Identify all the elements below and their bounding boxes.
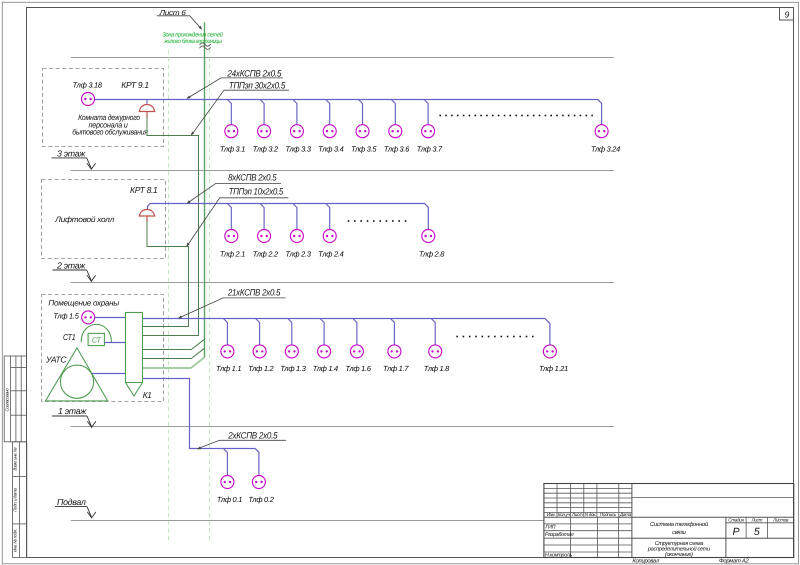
floor line podval (71, 520, 544, 522)
telephone socket Тлф 1.7 (383, 345, 409, 373)
svg-text:Тлф 1.5: Тлф 1.5 (53, 312, 79, 321)
svg-text:Согласовано: Согласовано (5, 388, 10, 412)
svg-text:Тлф 3.2: Тлф 3.2 (253, 145, 278, 154)
floor label 2 этаж (52, 260, 95, 281)
svg-text:Тлф 2.3: Тлф 2.3 (285, 250, 311, 259)
svg-text:2 этаж: 2 этаж (56, 260, 86, 270)
wire drop to Tlf 2.2 (260, 204, 264, 230)
zone boundary dashed line right (209, 50, 211, 544)
svg-text:Тлф 3.7: Тлф 3.7 (417, 145, 443, 154)
svg-text:ГИП: ГИП (545, 525, 555, 531)
ellipsis dots floor 2 (348, 220, 407, 222)
telephone socket Тлф 1.5 (53, 311, 94, 324)
title block document name (632, 521, 794, 558)
svg-text:Копировал: Копировал (632, 557, 660, 564)
svg-text:3 этаж: 3 этаж (57, 149, 86, 159)
wire Tlf 1.5 to K1 (94, 317, 125, 319)
title block (544, 484, 794, 559)
telephone socket Тлф 2.2 (253, 230, 278, 259)
wire drop to Tlf 1.3 (288, 319, 292, 345)
svg-text:Кол.уч: Кол.уч (558, 512, 571, 517)
svg-text:Разработал: Разработал (545, 532, 574, 538)
svg-text:Тлф 1.8: Тлф 1.8 (424, 364, 450, 373)
svg-text:Дата: Дата (619, 512, 632, 517)
svg-text:Стадия: Стадия (728, 518, 744, 523)
telephone socket Тлф 1.4 (313, 345, 338, 373)
svg-text:1 этаж: 1 этаж (58, 406, 87, 416)
wire drop to Tlf 2.1 (227, 204, 231, 230)
telephone socket Тлф 2.3 (285, 230, 311, 259)
wire drop to Tlf 3.7 (424, 100, 428, 125)
svg-text:связи: связи (672, 530, 687, 536)
wire drop to Tlf 3.6 (391, 100, 395, 125)
svg-text:(окончание): (окончание) (665, 551, 693, 558)
svg-text:Тлф 3.1: Тлф 3.1 (220, 145, 245, 154)
svg-text:жилого блока гостиницы: жилого блока гостиницы (163, 38, 222, 45)
svg-text:УАТС: УАТС (45, 354, 67, 364)
trunk cable floor2 TPPep 10x2x0.5 wire (143, 222, 189, 327)
svg-text:Изм: Изм (547, 512, 556, 517)
cross-connect box K1 (126, 313, 143, 397)
svg-text:Тлф 1.7: Тлф 1.7 (383, 364, 409, 373)
cable label 8xKSPV 2x0.5 with leader (187, 172, 282, 203)
svg-text:Система телефонной: Система телефонной (650, 521, 709, 528)
svg-text:21хКСПВ 2х0.5: 21хКСПВ 2х0.5 (227, 287, 281, 297)
svg-text:5: 5 (754, 526, 760, 538)
telephone socket Тлф 2.1 (220, 230, 245, 259)
svg-text:КРТ 8.1: КРТ 8.1 (130, 185, 158, 195)
left margin approval table (4, 356, 26, 442)
telephone socket Тлф 3.5 (351, 125, 377, 154)
svg-text:Помещение охраны: Помещение охраны (48, 299, 119, 308)
table telephone CT1 symbol (81, 324, 111, 345)
telephone socket Тлф 3.6 (384, 125, 410, 154)
telephone socket Тлф 1.3 (280, 345, 306, 373)
svg-text:Инв. № подл.: Инв. № подл. (12, 529, 17, 552)
svg-text:Р: Р (732, 526, 739, 538)
svg-text:Тлф 0.1: Тлф 0.1 (217, 495, 242, 504)
floor line 2 etazh (71, 282, 614, 284)
telephone socket Тлф 0.2 (248, 476, 273, 505)
room box floor 1: Pomeshchenie okhrany (42, 295, 164, 402)
cable label 21xKSPV 2x0.5 with leader (178, 287, 286, 318)
svg-text:Тлф 1.2: Тлф 1.2 (248, 364, 273, 373)
ellipsis dots floor 1 (456, 336, 533, 338)
wire K1 to trunk riser lower thick (143, 357, 205, 368)
svg-text:бытового обслуживания: бытового обслуживания (72, 128, 148, 137)
wire drop to Tlf 2.4 (326, 204, 330, 230)
svg-text:8хКСПВ 2х0.5: 8хКСПВ 2х0.5 (228, 172, 277, 182)
svg-text:Лист: Лист (750, 518, 762, 523)
svg-text:КРТ 9.1: КРТ 9.1 (121, 80, 149, 90)
svg-text:Тлф 2.8: Тлф 2.8 (419, 250, 445, 259)
wire drop to Tlf 1.8 (431, 319, 435, 345)
sheet number box 9 (780, 8, 794, 21)
svg-text:Н.контроль: Н.контроль (545, 553, 573, 559)
left margin inventory table (12, 442, 26, 558)
svg-text:Тлф 3.18: Тлф 3.18 (73, 81, 103, 90)
telephone socket Тлф 3.2 (253, 125, 278, 154)
wire drop to Tlf 2.3 (293, 204, 297, 230)
svg-text:Тлф 3.4: Тлф 3.4 (318, 145, 343, 154)
wire K1 to trunk riser middle (143, 348, 205, 358)
svg-text:N док.: N док. (585, 512, 596, 517)
telephone socket Тлф 1.2 (248, 345, 273, 373)
svg-text:СТ: СТ (92, 336, 102, 345)
wire drop to Tlf 3.4 (326, 100, 330, 125)
svg-text:Тлф 1.3: Тлф 1.3 (280, 364, 306, 373)
telephone socket Тлф 1.21 (539, 345, 568, 373)
floor label 3 этаж (52, 149, 96, 170)
basement feed wire 2xKSPV (143, 379, 259, 476)
svg-text:ТППэп 10х2х0.5: ТППэп 10х2х0.5 (229, 186, 284, 196)
telephone socket Тлф 2.4 (318, 230, 343, 259)
floor label Подвал (55, 497, 96, 518)
telephone socket Тлф 1.6 (345, 345, 371, 373)
floor3 subscriber bus wire (94, 100, 601, 125)
main trunk riser from sheet 6 (204, 22, 206, 357)
svg-text:Тлф 1.1: Тлф 1.1 (216, 364, 241, 373)
svg-text:Тлф 2.4: Тлф 2.4 (318, 250, 343, 259)
trunk cable floor3 TPPep 30x2x0.5 wire (143, 117, 199, 336)
wire drop to Tlf 1.4 (320, 319, 324, 345)
svg-text:Тлф 3.3: Тлф 3.3 (285, 145, 311, 154)
cable label TPPep 30x2x0.5 with leader (191, 80, 289, 135)
svg-text:24хКСПВ 2х0.5: 24хКСПВ 2х0.5 (227, 69, 283, 79)
wire UATC to K1 (92, 373, 125, 375)
telephone socket Тлф 1.1 (216, 345, 241, 373)
wire drop to Tlf 3.3 (293, 100, 297, 125)
wire drop to Tlf 1.6 (353, 319, 357, 345)
wire K1 to trunk riser upper (143, 339, 205, 349)
wire drop to Tlf 3.2 (260, 100, 264, 125)
zone boundary dashed line left (168, 50, 170, 544)
room box floor 2: Liftovoy kholl (42, 180, 166, 259)
floor label 1 этаж (52, 406, 96, 427)
svg-text:Подпись: Подпись (600, 512, 617, 517)
zone text zona prokhozhdeniya setey (162, 31, 223, 45)
floor line 3 etazh (71, 170, 614, 172)
PBX UATC symbol (46, 348, 108, 401)
junction stub to KRT 9.1 (146, 100, 148, 105)
ellipsis dots floor 3 (439, 115, 592, 117)
telephone socket Тлф 3.1 (220, 125, 245, 154)
svg-text:К1: К1 (143, 390, 152, 400)
red stem under KRT 8.1 (146, 217, 148, 223)
cable label 2xKSPV 2x0.5 with leader (197, 430, 286, 449)
room box floor 3: Komnata dezhurnogo personala (43, 69, 164, 147)
svg-text:Тлф 3.24: Тлф 3.24 (591, 145, 620, 154)
wire drop to Tlf 1.2 (256, 319, 260, 345)
floor2 subscriber bus wire (148, 204, 429, 230)
wire CT to K1 (104, 342, 125, 344)
svg-text:Тлф 1.4: Тлф 1.4 (313, 364, 338, 373)
svg-text:СТ1: СТ1 (63, 332, 76, 342)
svg-text:Тлф 1.21: Тлф 1.21 (539, 364, 568, 373)
wire drop to Tlf 1.1 (223, 319, 227, 345)
cable label 24xKSPV 2x0.5 with leader (186, 69, 283, 99)
svg-text:Лифтовой холл: Лифтовой холл (54, 215, 115, 224)
svg-text:2хКСПВ 2х0.5: 2хКСПВ 2х0.5 (227, 430, 278, 440)
svg-text:Формат А2: Формат А2 (719, 557, 750, 564)
floor1 subscriber bus wire (143, 319, 550, 345)
room text Komnata dezhurnogo personala i bytovogo obsluzhivaniya (72, 113, 148, 137)
distribution box KRT 8.1 (139, 210, 156, 216)
telephone socket Тлф 3.24 (591, 125, 620, 154)
distribution box KRT 9.1 (139, 105, 156, 112)
telephone socket Тлф 1.8 (424, 345, 450, 373)
cable break squiggle (200, 43, 211, 50)
svg-text:Взам. инв. №: Взам. инв. № (12, 447, 17, 471)
svg-text:Тлф 3.5: Тлф 3.5 (351, 145, 377, 154)
red stem under KRT 9.1 (146, 112, 148, 118)
svg-text:Тлф 3.6: Тлф 3.6 (384, 145, 410, 154)
ceiling line above floor 3 (71, 57, 614, 59)
svg-text:Подп. и дата: Подп. и дата (12, 488, 17, 512)
svg-text:Тлф 0.2: Тлф 0.2 (248, 495, 273, 504)
svg-text:Лист: Лист (571, 512, 583, 517)
svg-text:Тлф 1.6: Тлф 1.6 (345, 364, 371, 373)
wire drop to Tlf 0.1 (223, 449, 227, 476)
svg-text:Тлф 2.1: Тлф 2.1 (220, 250, 245, 259)
svg-text:Подвал: Подвал (57, 497, 86, 507)
telephone socket Тлф 3.3 (285, 125, 311, 154)
floor line 1 etazh (71, 426, 614, 428)
telephone socket Тлф 3.18 (73, 81, 103, 106)
telephone socket Тлф 3.4 (318, 125, 343, 154)
title block stage and sheet cells (726, 517, 794, 557)
wire drop to Tlf 3.5 (359, 100, 363, 125)
svg-text:Тлф 2.2: Тлф 2.2 (253, 250, 278, 259)
telephone socket Тлф 2.8 (419, 230, 445, 259)
telephone socket Тлф 0.1 (217, 476, 242, 505)
telephone socket Тлф 3.7 (417, 125, 443, 154)
cable label TPPep 10x2x0.5 with leader (186, 186, 288, 246)
svg-text:ТППэп 30х2х0.5: ТППэп 30х2х0.5 (229, 80, 286, 90)
svg-text:Листов: Листов (772, 518, 789, 523)
wire drop to Tlf 1.7 (390, 319, 394, 345)
label List 6 with leader (157, 8, 203, 30)
svg-text:9: 9 (784, 9, 789, 19)
wire drop to Tlf 3.1 (227, 100, 231, 125)
